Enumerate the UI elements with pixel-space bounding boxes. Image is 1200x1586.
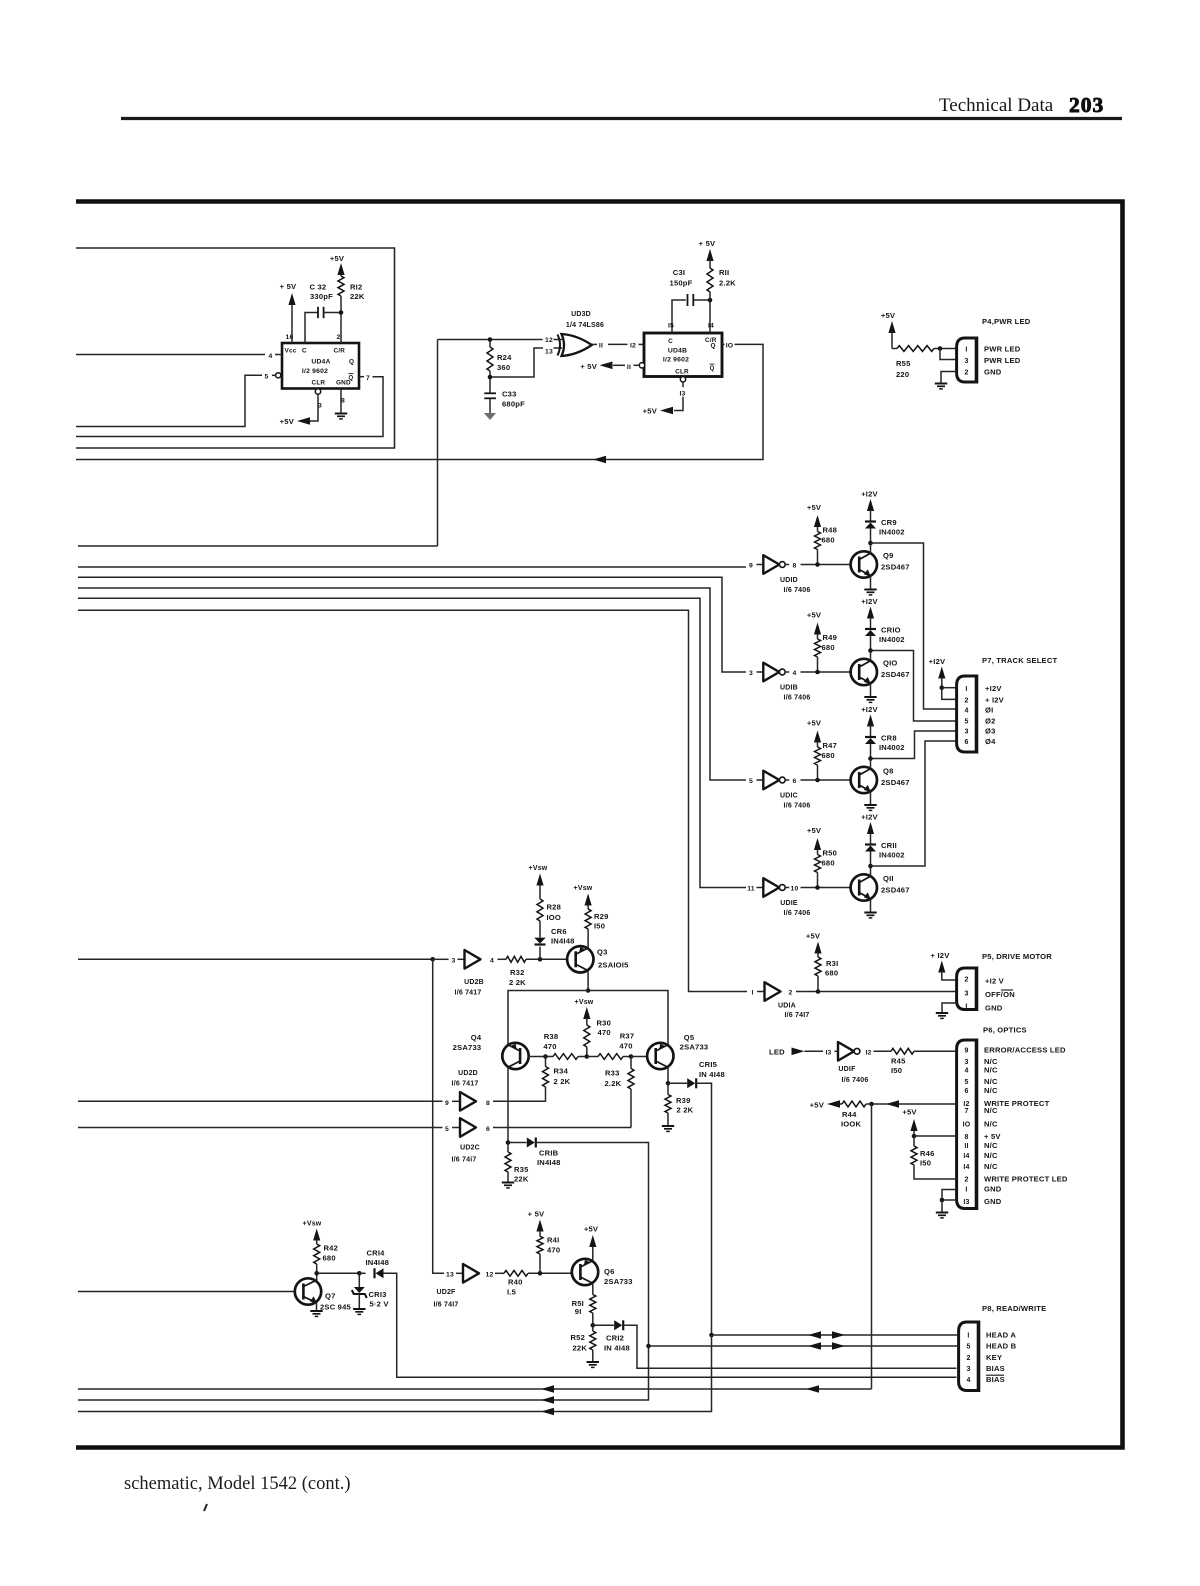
svg-text:I/6 74I7: I/6 74I7 <box>434 1302 459 1309</box>
svg-text:470: 470 <box>619 1042 632 1051</box>
resistor R46 150 <box>913 1136 915 1146</box>
svg-text:I50: I50 <box>594 922 605 931</box>
svg-text:R30: R30 <box>597 1019 612 1028</box>
svg-text:I/6 7406: I/6 7406 <box>784 803 811 810</box>
svg-text:UD4A: UD4A <box>311 359 330 366</box>
UD4B CLR pin 13 to +5V <box>680 377 685 382</box>
svg-text:C: C <box>668 338 673 345</box>
write-protect line: P6 pin 12 to R44 and +5V <box>872 1103 957 1105</box>
svg-text:I/6 74i7: I/6 74i7 <box>452 1157 477 1164</box>
svg-text:RI2: RI2 <box>350 283 362 292</box>
wire: to Q5 base <box>631 1056 647 1058</box>
transistor QII 2SD467 <box>851 874 877 900</box>
capacitor C33 680pF <box>484 392 496 394</box>
svg-text:R52: R52 <box>570 1333 585 1342</box>
resistor R35 22K to ground <box>507 1143 509 1153</box>
svg-text:22K: 22K <box>572 1344 587 1353</box>
svg-text:3: 3 <box>966 1366 970 1373</box>
resistor R55 220 <box>892 348 897 350</box>
svg-text:R37: R37 <box>620 1032 635 1041</box>
svg-text:4: 4 <box>490 957 494 964</box>
svg-text:CRIB: CRIB <box>539 1149 559 1158</box>
node: QIO collector to P7 <box>868 648 873 653</box>
svg-text:R45: R45 <box>891 1057 906 1066</box>
node: Q8 collector to P7 <box>868 756 873 761</box>
svg-text:3: 3 <box>964 358 968 365</box>
svg-text:UD4B: UD4B <box>668 347 687 354</box>
diode CR6 IN4148 (to +Vsw via R28) <box>539 947 541 960</box>
svg-text:P6, OPTICS: P6, OPTICS <box>983 1026 1027 1035</box>
svg-text:5·2 V: 5·2 V <box>370 1300 390 1309</box>
UD4A CLR pin 3 to +5V <box>315 389 320 394</box>
svg-text:+5V: +5V <box>807 719 822 728</box>
svg-text:9: 9 <box>964 1048 968 1055</box>
svg-text:2: 2 <box>964 370 968 377</box>
svg-text:R4I: R4I <box>547 1236 559 1245</box>
svg-text:CLR: CLR <box>312 380 326 387</box>
svg-text:I/6 7406: I/6 7406 <box>784 910 811 917</box>
diode CR18 IN4148 <box>508 1142 527 1144</box>
svg-text:Q4: Q4 <box>471 1033 482 1042</box>
node: R40/R41/Q6 base <box>538 1271 543 1276</box>
svg-text:Q6: Q6 <box>604 1267 615 1276</box>
svg-text:4: 4 <box>966 1377 970 1384</box>
svg-text:360: 360 <box>497 363 510 372</box>
UD4B pin 10 output loop back to left bus <box>722 343 725 345</box>
resistor R30 470 <box>584 1025 590 1047</box>
svg-text:UD2B: UD2B <box>464 979 484 986</box>
wire: left row to UD2B input 3 <box>78 958 433 960</box>
wire: Q4 collector down to CR18 node <box>507 1067 509 1142</box>
resistor R34 2.2K <box>545 1057 547 1067</box>
svg-text:R3I: R3I <box>826 959 838 968</box>
svg-text:KEY: KEY <box>986 1353 1002 1362</box>
svg-text:II: II <box>964 1143 968 1150</box>
svg-text:IN4002: IN4002 <box>879 635 905 644</box>
svg-text:IO: IO <box>963 1121 971 1128</box>
svg-text:+I2V: +I2V <box>861 597 878 606</box>
svg-text:2 2K: 2 2K <box>677 1106 694 1115</box>
svg-text:6: 6 <box>486 1126 490 1133</box>
svg-text:10: 10 <box>791 886 799 893</box>
node: Q7 collector / CR13 / CR14 <box>314 1271 319 1276</box>
svg-text:P4,PWR LED: P4,PWR LED <box>982 317 1031 326</box>
connector P7 TRACK SELECT body <box>957 676 977 752</box>
svg-text:IN4I48: IN4I48 <box>537 1158 561 1167</box>
svg-text:R24: R24 <box>497 353 512 362</box>
resistor R44 100K <box>842 1101 866 1107</box>
wire: +Vsw bracket feeding Q4/Q5 emitters <box>508 991 668 1047</box>
svg-text:Q: Q <box>349 359 354 366</box>
svg-text:UD3D: UD3D <box>571 311 591 318</box>
diode CR12 IN4148 <box>593 1324 614 1326</box>
svg-text:CRI4: CRI4 <box>367 1249 386 1258</box>
svg-text:2.2K: 2.2K <box>719 279 736 288</box>
svg-text:3: 3 <box>964 991 968 998</box>
svg-text:I/6 7406: I/6 7406 <box>784 695 811 702</box>
wire: CR14 to P8 BIAS-bar row <box>384 1273 957 1377</box>
svg-text:I5: I5 <box>668 323 674 330</box>
svg-text:Ø4: Ø4 <box>985 737 996 746</box>
svg-text:5: 5 <box>265 373 269 380</box>
wire: UD1A output to P5 pin 3 <box>796 991 957 993</box>
svg-text:+ 5V: + 5V <box>580 362 597 371</box>
svg-text:R47: R47 <box>823 741 838 750</box>
transistor Q9 2SD467 <box>851 551 877 577</box>
svg-text:680: 680 <box>822 643 835 652</box>
svg-text:I2: I2 <box>630 343 636 350</box>
ground at Q9 emitter <box>870 576 872 589</box>
svg-text:+5V: +5V <box>807 826 822 835</box>
svg-text:+ 5V: + 5V <box>528 1210 545 1219</box>
svg-text:Ø2: Ø2 <box>985 716 996 725</box>
wire: bus loop around UD4A (top) <box>76 248 395 448</box>
svg-text:R34: R34 <box>554 1067 569 1076</box>
connector P6 body <box>957 1040 977 1209</box>
svg-text:150pF: 150pF <box>670 279 693 288</box>
wire: left bus row to UD1B input 3 <box>78 577 746 672</box>
wire: left bus row to R24/XOR <box>78 545 438 547</box>
svg-text:8: 8 <box>793 563 797 570</box>
UD4A GND pin 8 <box>340 389 342 413</box>
svg-text:1/4 74LS86: 1/4 74LS86 <box>566 322 604 329</box>
svg-text:I/6 7417: I/6 7417 <box>452 1081 479 1088</box>
svg-text:IN 4I48: IN 4I48 <box>699 1070 725 1079</box>
svg-text:2: 2 <box>964 697 968 704</box>
vertical wire from R24 node down to left bus row <box>437 340 439 547</box>
wire: CR18 to P8 HEAD B (long vertical) <box>536 1143 649 1347</box>
svg-text:CRII: CRII <box>881 841 897 850</box>
P5 pin 1 ground <box>942 1003 957 1013</box>
svg-text:I50: I50 <box>920 1159 931 1168</box>
wire: Q3 collector to +Vsw bracket <box>587 971 589 991</box>
svg-text:22K: 22K <box>514 1175 529 1184</box>
svg-text:C3I: C3I <box>673 268 685 277</box>
svg-text:N/C: N/C <box>984 1162 998 1171</box>
wire: XOR output 11 to UD4B pin 12 <box>592 343 597 345</box>
svg-text:CRIO: CRIO <box>881 626 901 635</box>
svg-text:7: 7 <box>964 1108 968 1115</box>
svg-text:WRITE PROTECT LED: WRITE PROTECT LED <box>984 1174 1068 1183</box>
svg-text:2SD467: 2SD467 <box>881 670 910 679</box>
svg-text:9I: 9I <box>575 1307 582 1316</box>
node: QII collector to P7 <box>868 864 873 869</box>
svg-text:2: 2 <box>964 977 968 984</box>
svg-text:I3: I3 <box>679 390 685 397</box>
svg-text:I/6 7417: I/6 7417 <box>455 990 482 997</box>
svg-text:R42: R42 <box>324 1244 339 1253</box>
svg-text:5: 5 <box>749 778 753 785</box>
inverter UD1F 1/6 7406 <box>838 1042 854 1061</box>
svg-text:2: 2 <box>337 334 341 341</box>
svg-text:+5V: +5V <box>330 254 345 263</box>
svg-text:QIO: QIO <box>883 659 898 668</box>
svg-text:I: I <box>965 1186 967 1193</box>
svg-text:BIAS: BIAS <box>986 1375 1005 1384</box>
svg-text:2SA733: 2SA733 <box>604 1277 633 1286</box>
svg-text:Q8: Q8 <box>883 767 894 776</box>
UD4A pin 5 input wire with bubble <box>276 373 281 378</box>
svg-text:HEAD B: HEAD B <box>986 1342 1017 1351</box>
resistor R32 2.2K <box>498 958 507 960</box>
svg-text:PWR LED: PWR LED <box>984 356 1021 365</box>
svg-text:22K: 22K <box>350 292 365 301</box>
svg-text:C 32: C 32 <box>310 283 327 292</box>
capacitor C31 150pF <box>687 294 689 306</box>
svg-text:Q9: Q9 <box>883 551 894 560</box>
svg-text:R46: R46 <box>920 1149 935 1158</box>
svg-text:GND: GND <box>984 1197 1002 1206</box>
ground at QII emitter <box>870 899 872 912</box>
svg-text:680: 680 <box>822 751 835 760</box>
svg-text:11: 11 <box>747 886 755 893</box>
svg-text:P8, READ/WRITE: P8, READ/WRITE <box>982 1304 1046 1313</box>
svg-text:R35: R35 <box>514 1165 529 1174</box>
svg-text:II: II <box>599 343 603 350</box>
svg-text:IN4002: IN4002 <box>879 743 905 752</box>
diode CR15 IN4148 <box>668 1082 687 1084</box>
svg-text:2SD467: 2SD467 <box>881 886 910 895</box>
node: R55 to P4 pins 1 and 3 <box>938 346 943 351</box>
svg-text:R33: R33 <box>605 1069 620 1078</box>
svg-text:Q3: Q3 <box>597 948 608 957</box>
svg-text:8: 8 <box>486 1100 490 1107</box>
wire: left row to UD2C input 5 <box>78 1127 443 1129</box>
svg-text:PWR LED: PWR LED <box>984 345 1021 354</box>
UD4B pin 14 wire <box>709 300 711 333</box>
svg-text:+5V: +5V <box>280 417 295 426</box>
resistor R40 1.5 <box>495 1272 504 1274</box>
transistor Q8 2SD467 <box>851 767 877 793</box>
svg-text:R29: R29 <box>594 912 609 921</box>
svg-text:+5V: +5V <box>643 407 658 416</box>
svg-text:13: 13 <box>545 349 553 356</box>
svg-text:+5V: +5V <box>902 1108 917 1117</box>
svg-text:IOOK: IOOK <box>841 1120 862 1129</box>
connector P8 body <box>959 1322 979 1391</box>
svg-text:+5V: +5V <box>810 1101 825 1110</box>
svg-text:Ø3: Ø3 <box>985 727 996 736</box>
header rule <box>121 117 1122 120</box>
svg-text:13: 13 <box>446 1272 454 1279</box>
ground at Q8 emitter <box>870 792 872 805</box>
wire: left bus row to UD1E input 11 <box>78 598 746 887</box>
svg-text:UDIF: UDIF <box>838 1066 856 1073</box>
svg-text:IO: IO <box>726 343 734 350</box>
XOR gate U-D3D 1/4 74LS86 <box>558 335 561 356</box>
svg-text:I/2 9602: I/2 9602 <box>302 368 328 375</box>
svg-text:UDID: UDID <box>780 577 798 584</box>
svg-text:9: 9 <box>445 1100 449 1107</box>
svg-text:+I2V: +I2V <box>861 813 878 822</box>
wire: left bus row to UD1A input 1 <box>78 610 747 991</box>
svg-text:I50: I50 <box>891 1066 902 1075</box>
resistor R52 22K to ground <box>592 1325 594 1331</box>
svg-text:N/C: N/C <box>984 1066 998 1075</box>
svg-text:CR6: CR6 <box>551 927 567 936</box>
wire: UD2B node down to UD2F input 13 <box>433 959 444 1273</box>
+5V / R46 on P6 pin 8 <box>914 1135 957 1137</box>
svg-text:2SAIOI5: 2SAIOI5 <box>598 961 629 970</box>
svg-text:3: 3 <box>452 957 456 964</box>
IC U-D4B 1/2 9602 box <box>644 333 722 377</box>
svg-text:4: 4 <box>793 670 797 677</box>
svg-text:UD2F: UD2F <box>436 1289 456 1296</box>
svg-text:I4: I4 <box>963 1164 969 1171</box>
svg-text:I: I <box>965 1004 967 1011</box>
UD4A pin 4 input wire <box>76 354 265 356</box>
svg-text:I4: I4 <box>963 1153 969 1160</box>
svg-text:8: 8 <box>964 1134 968 1141</box>
wire: left row to UD2D input 9 <box>78 1100 443 1102</box>
diode CR14 IN4148 <box>359 1272 365 1274</box>
svg-text:UD2C: UD2C <box>460 1145 480 1152</box>
svg-text:C/R: C/R <box>334 348 346 355</box>
node: R51/R52/CR12 <box>591 1323 596 1328</box>
wire: left bus row to UD1D input 9 <box>78 566 746 568</box>
svg-text:UD2D: UD2D <box>458 1070 478 1077</box>
svg-text:2: 2 <box>789 990 793 997</box>
svg-text:I3: I3 <box>963 1199 969 1206</box>
wire: CR15 to P8 HEAD A (long vertical) <box>696 1083 711 1335</box>
wire: CR15 vertical down to row to left edge <box>78 1335 712 1412</box>
svg-text:+ 5V: + 5V <box>280 282 297 291</box>
P6 ground pins 1 and 13 <box>942 1190 957 1201</box>
svg-text:N/C: N/C <box>984 1119 998 1128</box>
svg-text:12: 12 <box>545 337 553 344</box>
svg-text:6: 6 <box>964 739 968 746</box>
svg-text:470: 470 <box>547 1246 560 1255</box>
node: +12V to P7 pins 1 and 2 <box>940 685 945 690</box>
svg-text:IN 4I48: IN 4I48 <box>604 1344 630 1353</box>
svg-text:II: II <box>627 364 631 371</box>
svg-text:+ I2V: + I2V <box>985 695 1005 704</box>
svg-text:+I2V: +I2V <box>861 705 878 714</box>
svg-text:5: 5 <box>964 1079 968 1086</box>
resistor R51 91 <box>592 1283 594 1295</box>
capacitor C32 330pF <box>317 307 319 318</box>
svg-text:2: 2 <box>966 1355 970 1362</box>
wire: CR18 vertical down to row to left edge <box>78 1346 649 1400</box>
overline on ON of OFF/ON <box>1001 989 1013 991</box>
svg-text:UDIB: UDIB <box>780 685 798 692</box>
wire: R24 top row to XOR input 12 <box>438 339 543 341</box>
svg-text:680: 680 <box>825 969 838 978</box>
transistor QIO 2SD467 <box>851 659 877 685</box>
svg-text:2 2K: 2 2K <box>554 1077 571 1086</box>
svg-text:UDIA: UDIA <box>778 1003 796 1010</box>
svg-text:CR8: CR8 <box>881 734 897 743</box>
svg-text:Technical Data: Technical Data <box>939 95 1054 116</box>
svg-text:ØI: ØI <box>985 706 993 715</box>
svg-text:I: I <box>751 990 753 997</box>
wire: R44 node down to read/write row (long vertical) <box>871 1104 873 1389</box>
svg-text:2: 2 <box>964 1176 968 1183</box>
node: C32/R12/pin2 junction <box>340 296 342 343</box>
svg-text:HEAD A: HEAD A <box>986 1331 1016 1340</box>
svg-text:680pF: 680pF <box>502 400 525 409</box>
transistor Q4 2SA733 <box>502 1043 528 1069</box>
svg-text:IOO: IOO <box>547 913 562 922</box>
resistor R39 2.2K to ground <box>667 1083 669 1094</box>
svg-text:Q: Q <box>711 343 716 350</box>
svg-text:GND: GND <box>984 368 1002 377</box>
svg-text:330pF: 330pF <box>310 292 333 301</box>
svg-text:N/C: N/C <box>984 1106 998 1115</box>
svg-text:IN4002: IN4002 <box>879 528 905 537</box>
svg-text:I4: I4 <box>708 323 714 330</box>
svg-text:+I2V: +I2V <box>861 490 878 499</box>
svg-text:N/C: N/C <box>984 1077 998 1086</box>
svg-text:I2: I2 <box>865 1050 871 1057</box>
svg-text:CRI2: CRI2 <box>606 1334 624 1343</box>
svg-text:220: 220 <box>896 370 909 379</box>
resistor R37 470 <box>598 1054 623 1060</box>
HEAD A row with bidirectional arrows <box>709 1333 714 1338</box>
overline on BIAS pin 4 <box>986 1374 1004 1376</box>
svg-text:CR9: CR9 <box>881 518 897 527</box>
connector P5 body <box>957 968 977 1010</box>
UD4A pin C wire <box>305 313 318 344</box>
ground at Q7 emitter <box>316 1303 318 1311</box>
wire: Q4 base to R38 <box>528 1056 546 1058</box>
svg-text:+Vsw: +Vsw <box>529 865 548 872</box>
svg-text:4: 4 <box>964 708 968 715</box>
svg-text:2SD467: 2SD467 <box>881 563 910 572</box>
svg-text:Q: Q <box>710 366 715 372</box>
transistor Q3 2SA1015 <box>567 946 593 972</box>
svg-text:N/C: N/C <box>984 1057 998 1066</box>
svg-text:6: 6 <box>793 778 797 785</box>
svg-text:R49: R49 <box>823 633 838 642</box>
svg-text:+5V: +5V <box>807 503 822 512</box>
svg-text:I: I <box>965 347 967 354</box>
svg-text:7: 7 <box>366 375 370 382</box>
wire: CR12 to P8 BIAS row <box>623 1325 956 1368</box>
UD4B pin 11 to +5V <box>639 363 644 368</box>
svg-text:470: 470 <box>543 1042 556 1051</box>
svg-text:+5V: +5V <box>807 611 822 620</box>
svg-text:4: 4 <box>269 353 273 360</box>
resistor R45 150 <box>874 1050 892 1052</box>
svg-text:QII: QII <box>883 874 894 883</box>
wire: R44 vertical turning left (row to left edge) <box>78 1388 872 1390</box>
svg-text:+ 5V: + 5V <box>699 239 716 248</box>
svg-text:2SA733: 2SA733 <box>680 1043 709 1052</box>
svg-text:R40: R40 <box>508 1278 523 1287</box>
UD4B pin 15 wire to C31 <box>672 300 686 333</box>
svg-text:+Vsw: +Vsw <box>575 999 594 1006</box>
svg-text:3: 3 <box>749 670 753 677</box>
svg-text:BIAS: BIAS <box>986 1364 1005 1373</box>
svg-text:470: 470 <box>598 1028 611 1037</box>
svg-text:CRI3: CRI3 <box>369 1290 387 1299</box>
svg-text:Q: Q <box>349 376 354 382</box>
svg-text:R38: R38 <box>544 1032 559 1041</box>
svg-text:3: 3 <box>318 403 322 410</box>
svg-text:R50: R50 <box>823 849 838 858</box>
svg-text:schematic, Model 1542 (cont.): schematic, Model 1542 (cont.) <box>124 1474 351 1494</box>
svg-text:+5V: +5V <box>881 311 896 320</box>
svg-text:R48: R48 <box>823 526 838 535</box>
wire: UD2C output 6 to R33 leg <box>493 1127 631 1129</box>
svg-text:P7, TRACK SELECT: P7, TRACK SELECT <box>982 656 1058 665</box>
svg-text:680: 680 <box>822 536 835 545</box>
node: Q9 collector to P7 <box>868 541 873 546</box>
svg-text:+5V: +5V <box>584 1225 599 1234</box>
svg-text:5: 5 <box>445 1126 449 1133</box>
resistor R38 470 <box>553 1054 578 1060</box>
